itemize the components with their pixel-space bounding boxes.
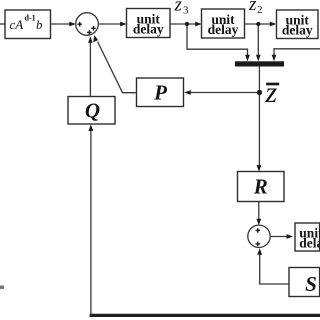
svg-text:S: S [305, 272, 317, 296]
block unit delay 3 [277, 10, 319, 39]
svg-text:b: b [36, 17, 43, 32]
block S (clipped at right edge) [289, 268, 320, 297]
wire right feedback from canvas edge into bar [272, 49, 320, 62]
node zbar junction dot [257, 90, 262, 95]
svg-text:cA: cA [10, 17, 24, 32]
svg-text:delay: delay [282, 23, 313, 38]
block unit delay 2 [202, 9, 245, 38]
wire S to summer2 [257, 248, 289, 284]
wire z3 branch down to bar [187, 26, 250, 61]
svg-text:z: z [265, 76, 278, 109]
wire z2 branch down to bar [256, 26, 261, 61]
svg-text:Q: Q [85, 99, 100, 123]
block P [137, 78, 184, 107]
svg-text:3: 3 [183, 5, 189, 17]
summing junction 1 [76, 13, 99, 36]
svg-text:delay: delay [299, 236, 320, 251]
wire feedback bottom line to Q [89, 124, 320, 316]
svg-text:R: R [253, 174, 268, 198]
node z2 junction dot [256, 22, 260, 26]
block Q [68, 97, 115, 125]
svg-text:z: z [248, 0, 257, 15]
left edge cut mark [0, 286, 4, 290]
svg-text:delay: delay [208, 22, 239, 37]
label z2 [248, 0, 263, 16]
wire unit delay2 to unit delay3 [245, 22, 277, 27]
block R [238, 172, 285, 202]
svg-text:P: P [153, 81, 167, 105]
block unit delay 1 [127, 9, 171, 38]
wire cA to summer 1 [51, 22, 76, 27]
combiner bar [235, 61, 284, 66]
block cA^{d-1}b [5, 10, 51, 39]
summing junction 2 [248, 225, 270, 247]
wire Q up to summer1 [88, 36, 93, 96]
svg-text:delay: delay [133, 22, 164, 37]
label zbar [265, 76, 280, 109]
wire summer2 to unit delay 4 [270, 234, 293, 239]
wire unit delay1 to unit delay2 [170, 22, 202, 27]
label z3 [174, 0, 190, 17]
wire summer1 to unit delay 1 [98, 22, 126, 27]
wire input stub [0, 23, 5, 25]
svg-text:2: 2 [257, 4, 263, 16]
block unit delay 4 (clipped at right edge) [295, 223, 320, 251]
node z3 junction dot [185, 22, 189, 26]
wire zbar to P [184, 90, 257, 95]
svg-text:z: z [174, 0, 183, 16]
wire P to summer1 (diagonal) [93, 35, 136, 93]
wire bar down through zbar node to R [257, 67, 262, 172]
svg-text:d-1: d-1 [25, 14, 36, 23]
wire R down to summer2 [256, 202, 261, 226]
